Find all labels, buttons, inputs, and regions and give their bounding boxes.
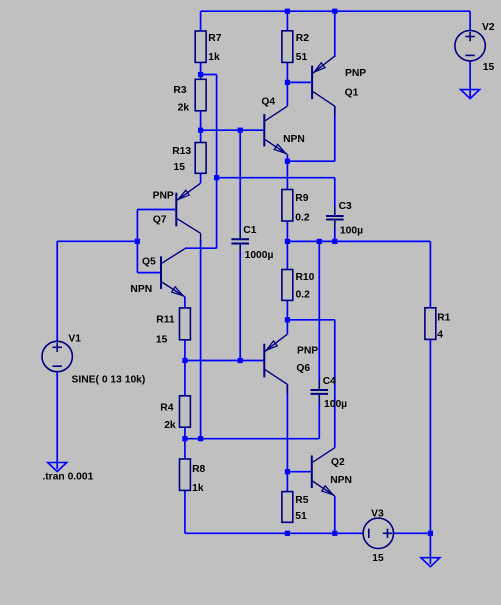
node out-C4 bbox=[317, 239, 322, 244]
node V3-R1 bbox=[428, 531, 433, 536]
wire R8 bottom bbox=[184, 490, 186, 533]
svg-text:15: 15 bbox=[483, 62, 495, 73]
capacitor C3 bbox=[326, 207, 344, 229]
transistor Q6 (PNP) bbox=[264, 334, 287, 393]
svg-text:NPN: NPN bbox=[330, 475, 352, 486]
resistor R4 bbox=[180, 396, 191, 427]
wire Q7 collector down bbox=[200, 240, 202, 439]
wire V2 bottom bbox=[469, 61, 471, 97]
wire Q5 base bbox=[137, 272, 161, 274]
svg-text:R9: R9 bbox=[295, 193, 308, 204]
wire Q4e-Q1c row bbox=[287, 160, 334, 162]
capacitor C4 bbox=[311, 381, 329, 403]
node Q5c branch bbox=[214, 175, 219, 180]
wire output row bbox=[287, 240, 430, 242]
resistor R10 bbox=[282, 270, 293, 301]
wire R7-R3 bbox=[200, 62, 202, 79]
svg-text:51: 51 bbox=[295, 511, 307, 522]
wire Q2 base bbox=[287, 471, 311, 473]
svg-text:0.2: 0.2 bbox=[295, 212, 310, 223]
svg-text:1k: 1k bbox=[208, 52, 220, 63]
wire Q6e row to Q2 collector bbox=[287, 319, 334, 321]
wire R13 to Q7 emitter bbox=[200, 173, 202, 183]
svg-text:PNP: PNP bbox=[297, 346, 318, 357]
svg-text:C4: C4 bbox=[323, 376, 336, 387]
wire V1 top bbox=[56, 241, 58, 341]
node C1 top tap bbox=[238, 128, 243, 133]
wire Q5 collector bbox=[185, 247, 217, 249]
node R2-Q4c-Q1b bbox=[285, 80, 290, 85]
wire R2 bottom bbox=[286, 62, 288, 106]
wire bottom rail right bbox=[394, 532, 431, 534]
svg-text:2k: 2k bbox=[164, 420, 176, 431]
svg-text:15: 15 bbox=[156, 334, 168, 345]
svg-text:Q7: Q7 bbox=[153, 215, 167, 226]
svg-text:Q4: Q4 bbox=[261, 97, 275, 108]
svg-text:15: 15 bbox=[174, 162, 186, 173]
svg-text:R3: R3 bbox=[173, 85, 186, 96]
svg-text:V2: V2 bbox=[482, 22, 495, 33]
wire jog right at R7 bottom bbox=[201, 74, 217, 76]
wire Q6 collector down bbox=[286, 384, 288, 491]
svg-text:R7: R7 bbox=[208, 33, 221, 44]
node R10-Q6e bbox=[285, 317, 290, 322]
ground (V3 return) bbox=[421, 558, 440, 567]
wire to ground V3 bbox=[429, 533, 431, 564]
wire V1 bottom bbox=[56, 372, 58, 469]
resistor R11 bbox=[180, 308, 191, 340]
node Q6c-R5-Q2b bbox=[285, 469, 290, 474]
wire Q7 base bbox=[137, 209, 176, 211]
wire C1 top bbox=[239, 130, 241, 230]
wire Q5c to C3 bbox=[217, 177, 335, 179]
svg-text:C3: C3 bbox=[339, 201, 352, 212]
svg-text:R5: R5 bbox=[295, 495, 308, 506]
svg-text:R10: R10 bbox=[296, 272, 315, 283]
wire Q7-Q5 base vertical bbox=[136, 210, 138, 273]
node Q2e bottom bbox=[332, 531, 337, 536]
svg-text:R4: R4 bbox=[160, 402, 173, 413]
svg-text:PNP: PNP bbox=[153, 191, 174, 202]
wire Q4 base row bbox=[201, 129, 265, 131]
wire Q1 collector down bbox=[334, 106, 336, 161]
resistor R2 bbox=[282, 31, 293, 63]
node Q7c end bbox=[198, 436, 203, 441]
svg-text:R13: R13 bbox=[172, 146, 191, 157]
svg-text:R8: R8 bbox=[192, 464, 205, 475]
resistor R9 bbox=[282, 190, 293, 222]
wire R7 top bbox=[200, 11, 202, 31]
wire R10 bottom to Q6 emitter bbox=[286, 300, 288, 334]
transistor Q7 (PNP) bbox=[176, 183, 200, 242]
svg-text:NPN: NPN bbox=[283, 134, 305, 145]
wire C4 top bbox=[318, 241, 320, 381]
wire Q4 emitter stub bbox=[286, 155, 288, 162]
voltage source V3 bbox=[363, 518, 393, 548]
ground (V1 return) bbox=[48, 463, 67, 472]
svg-text:R2: R2 bbox=[296, 33, 309, 44]
node base tee bbox=[135, 239, 140, 244]
wire R1 bottom bbox=[429, 339, 431, 533]
wire to V1 bbox=[57, 240, 137, 242]
svg-text:100µ: 100µ bbox=[324, 399, 347, 410]
wire Q1 emitter to rail bbox=[334, 11, 336, 57]
svg-text:100µ: 100µ bbox=[340, 225, 363, 236]
node C1 bottom tap bbox=[238, 358, 243, 363]
node R3-R13 tap bbox=[198, 128, 203, 133]
svg-text:1k: 1k bbox=[192, 483, 204, 494]
resistor R13 bbox=[195, 143, 206, 174]
wire R2 top bbox=[286, 11, 288, 31]
wire bottom rail left bbox=[185, 532, 363, 534]
svg-text:C1: C1 bbox=[243, 225, 256, 236]
transistor Q1 (PNP) bbox=[312, 56, 335, 115]
svg-text:2k: 2k bbox=[178, 102, 190, 113]
wire C3 bottom bbox=[334, 229, 336, 242]
capacitor C1 bbox=[231, 230, 249, 252]
wire Q2 emitter down bbox=[334, 496, 336, 533]
node R7-R3 tap bbox=[198, 72, 203, 77]
wire long vertical to Q5 collector bbox=[216, 75, 218, 249]
ground (V2 return) bbox=[461, 90, 480, 99]
svg-text:.tran 0.001: .tran 0.001 bbox=[42, 471, 93, 482]
wire R4-R8 bbox=[184, 427, 186, 459]
wire C4 bottom bbox=[318, 403, 320, 439]
svg-text:SINE( 0 13 10k): SINE( 0 13 10k) bbox=[72, 374, 146, 385]
wire R4 bottom row bbox=[185, 438, 319, 440]
wire Q5 emitter to R11 bbox=[184, 297, 186, 308]
node R11-R4 tap bbox=[182, 358, 187, 363]
transistor Q5 (NPN) bbox=[161, 249, 185, 297]
wire R3-R13 bbox=[200, 111, 202, 143]
svg-text:51: 51 bbox=[296, 52, 308, 63]
node R4-R8 tap bbox=[182, 436, 187, 441]
wire C3 top bbox=[334, 178, 336, 207]
svg-text:0.2: 0.2 bbox=[296, 289, 311, 300]
svg-text:Q1: Q1 bbox=[345, 88, 359, 99]
resistor R5 bbox=[282, 492, 293, 523]
wire R9 top bbox=[286, 161, 288, 189]
node out-C3 bbox=[332, 239, 337, 244]
wire Q6 base row bbox=[185, 360, 264, 362]
svg-text:V1: V1 bbox=[68, 333, 81, 344]
node Q4e-R9 bbox=[285, 159, 290, 164]
wire Q1 base bbox=[287, 81, 312, 83]
svg-text:NPN: NPN bbox=[130, 284, 152, 295]
svg-text:Q2: Q2 bbox=[331, 457, 345, 468]
wire V+ top rail bbox=[201, 10, 471, 12]
svg-text:Q5: Q5 bbox=[142, 257, 156, 268]
transistor Q4 (NPN) bbox=[264, 106, 287, 154]
node out-R9R10 bbox=[285, 239, 290, 244]
svg-text:R1: R1 bbox=[437, 312, 450, 323]
wire R11-R4 bbox=[184, 340, 186, 396]
voltage source V1 bbox=[42, 341, 72, 371]
wire R9-R10 bbox=[286, 221, 288, 270]
node rail-Q1e bbox=[332, 9, 337, 14]
wire V2 top bbox=[469, 11, 471, 30]
resistor R7 bbox=[195, 31, 206, 62]
resistor R3 bbox=[195, 79, 206, 111]
wire Q2 collector vertical bbox=[334, 320, 336, 448]
svg-text:V3: V3 bbox=[371, 509, 384, 520]
voltage source V2 bbox=[455, 31, 485, 61]
svg-text:4: 4 bbox=[437, 330, 443, 341]
svg-text:R11: R11 bbox=[156, 315, 175, 326]
svg-text:15: 15 bbox=[372, 553, 384, 564]
svg-text:Q6: Q6 bbox=[296, 363, 310, 374]
wire R1 top bbox=[429, 241, 431, 307]
svg-text:1000µ: 1000µ bbox=[245, 250, 274, 261]
node rail-R2 bbox=[285, 9, 290, 14]
svg-text:PNP: PNP bbox=[345, 68, 366, 79]
resistor R8 bbox=[180, 459, 191, 490]
wire C1 bottom bbox=[239, 253, 241, 361]
node R5 bottom bbox=[285, 531, 290, 536]
resistor R1 bbox=[425, 308, 436, 340]
transistor Q2 (NPN) bbox=[312, 448, 335, 496]
